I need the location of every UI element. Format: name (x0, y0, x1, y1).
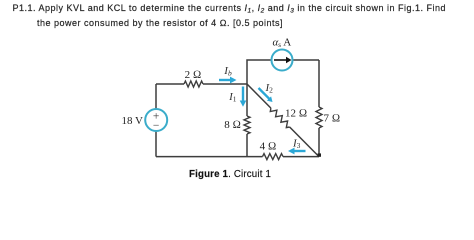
problem text line 2 (37, 18, 283, 28)
resistor R3 12 ohm (270, 108, 289, 128)
label Ib (223, 65, 232, 78)
current arrow Ib (219, 77, 237, 84)
svg-text:8 Ω: 8 Ω (224, 119, 241, 131)
wire middle vertical (246, 84, 248, 157)
label I2 (265, 82, 274, 95)
current source Is (272, 50, 293, 71)
label as A (273, 37, 292, 49)
label 18 V (122, 115, 144, 127)
current arrow I2 (259, 88, 273, 102)
caption Figure 1 (189, 169, 271, 180)
current arrow I3 (288, 148, 306, 155)
svg-text:αs A: αs A (273, 37, 292, 49)
wire top (156, 83, 247, 85)
wire bottom (156, 156, 319, 158)
label 12 ohm (285, 108, 307, 120)
wire left side (155, 84, 157, 157)
svg-text:12 Ω: 12 Ω (285, 108, 307, 120)
label I1 (228, 91, 237, 104)
junction dot bottom-right corner (318, 153, 321, 156)
svg-text:−: − (153, 120, 160, 132)
label 7 ohm (324, 113, 341, 125)
current arrow I1 (240, 87, 247, 107)
wire right side (318, 60, 320, 157)
svg-text:2 Ω: 2 Ω (185, 69, 202, 81)
svg-text:Ib: Ib (223, 65, 232, 78)
label 2 ohm (185, 69, 202, 81)
svg-text:18 V: 18 V (122, 115, 144, 127)
resistor R5 4 ohm (263, 154, 284, 160)
resistor R1 2 ohm (184, 81, 203, 87)
resistor R4 7 ohm (316, 107, 322, 128)
svg-text:7 Ω: 7 Ω (324, 113, 341, 125)
label 8 ohm (224, 119, 241, 131)
svg-text:I3: I3 (292, 137, 301, 150)
svg-text:I1: I1 (228, 91, 237, 104)
wire diagonal (247, 84, 319, 157)
label 4 ohm (260, 140, 277, 152)
resistor R2 8 ohm (244, 116, 250, 134)
svg-text:I2: I2 (265, 82, 274, 95)
svg-text:4 Ω: 4 Ω (260, 140, 277, 152)
label I3 (292, 137, 301, 150)
wire current source branch (247, 60, 319, 84)
voltage source V1 18 V (145, 109, 167, 132)
problem text line 1 (13, 3, 446, 13)
